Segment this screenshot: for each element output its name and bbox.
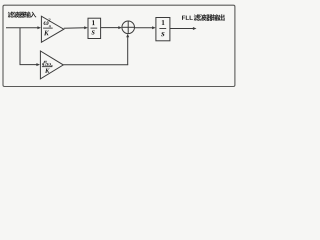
integrator block 1/s (first box) xyxy=(88,18,101,38)
wire: lower gain output feedback horizontal xyxy=(63,64,128,66)
wire: output arrow xyxy=(170,27,197,30)
integrator block 1/s (second box) xyxy=(156,18,170,41)
wire: branch horizontal into lower gain xyxy=(20,63,41,66)
gain block U2: sqrt(2)omega_n / K (lower triangle) xyxy=(40,51,63,79)
wire: feedback vertical up into summing junction xyxy=(126,34,129,65)
node: FLL filter output label FLL滤波器输出 xyxy=(182,16,193,20)
summing junction S1 xyxy=(122,21,135,34)
node: filter input label 滤波器输入 xyxy=(8,12,37,18)
wire: integrator 1 output to summing junction xyxy=(101,26,122,29)
wire: summing junction output to integrator 2 xyxy=(135,26,156,29)
wire: branch vertical drop from junction xyxy=(19,28,21,65)
wire: upper gain output to integrator 1 xyxy=(64,26,88,29)
gain block U1: omega_n^2 / K (upper triangle) xyxy=(41,16,63,42)
wire: input horizontal into upper gain xyxy=(6,26,41,29)
border frame xyxy=(3,5,235,86)
